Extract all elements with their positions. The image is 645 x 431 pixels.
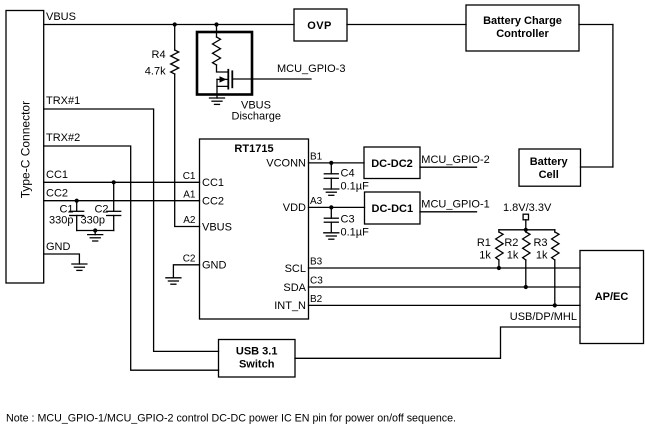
svg-text:CC2: CC2 [202, 196, 224, 208]
svg-text:VBUS: VBUS [241, 99, 271, 111]
wire CC1 [44, 181, 200, 183]
wire RT1715 GND pin [173, 265, 199, 278]
svg-text:Type-C Connector: Type-C Connector [18, 101, 32, 198]
svg-text:1k: 1k [479, 249, 491, 261]
svg-text:SCL: SCL [285, 263, 306, 275]
svg-text:CC1: CC1 [46, 169, 68, 181]
resistor discharge [213, 37, 221, 65]
capacitor C3 bottom stub [330, 222, 332, 233]
svg-text:MCU_GPIO-1: MCU_GPIO-1 [421, 198, 489, 210]
capacitor C3 plates [324, 218, 338, 222]
svg-text:B3: B3 [310, 257, 323, 268]
svg-text:Battery: Battery [530, 156, 569, 168]
svg-text:A2: A2 [183, 215, 196, 226]
svg-text:R3: R3 [533, 237, 547, 249]
svg-text:C1: C1 [183, 171, 196, 182]
wire BCC right to corner [579, 24, 613, 26]
svg-text:Cell: Cell [539, 169, 559, 181]
svg-text:Note : MCU_GPIO-1/MCU_GPIO-2 c: Note : MCU_GPIO-1/MCU_GPIO-2 control DC-… [6, 413, 456, 425]
wire supply rail [499, 229, 555, 231]
svg-text:CC2: CC2 [46, 188, 68, 200]
resistor R4 [171, 50, 179, 74]
svg-text:USB 3.1: USB 3.1 [236, 345, 278, 357]
wire INT_N [309, 304, 581, 306]
ground C3 [324, 233, 339, 239]
wire source [217, 86, 228, 98]
wire drain [217, 65, 229, 72]
capacitor C4 stub [330, 163, 332, 174]
svg-text:A3: A3 [310, 196, 323, 207]
ground caps [88, 231, 103, 242]
svg-text:0.1µF: 0.1µF [341, 181, 370, 193]
svg-text:C3: C3 [310, 276, 323, 287]
svg-text:USB/DP/MHL: USB/DP/MHL [510, 311, 577, 323]
wire connector GND [44, 254, 80, 264]
capacitor C2 stub bottom [113, 216, 115, 231]
svg-text:B1: B1 [310, 152, 323, 163]
svg-text:4.7k: 4.7k [145, 65, 166, 77]
wire R4 top stub [174, 25, 176, 51]
wire R3 bottom [554, 260, 556, 305]
wire MCU_GPIO-2 [420, 166, 477, 168]
wire Battery Cell right [581, 166, 613, 168]
wire supply stem [525, 220, 527, 230]
box OVP [294, 9, 347, 41]
op-amp U1 RT1715 box [200, 139, 309, 319]
svg-text:R1: R1 [477, 237, 491, 249]
resistor R1 [496, 232, 503, 260]
wire OVP to Battery Charge Controller [347, 24, 466, 26]
resistor R2 [523, 232, 530, 260]
wire SDA [309, 286, 581, 288]
wire R4 bottom to VBUS pin [175, 74, 200, 227]
wire cap join [77, 230, 114, 232]
transistor Q1 body arrow [217, 76, 228, 82]
ground below discharge box [210, 98, 225, 104]
svg-text:1k: 1k [536, 249, 548, 261]
svg-text:VDD: VDD [283, 202, 306, 214]
svg-text:GND: GND [202, 260, 227, 272]
ground RT1715 [166, 278, 181, 284]
box DC-DC2 [364, 147, 420, 179]
svg-text:VBUS: VBUS [202, 221, 232, 233]
wire vertical BCC to Battery Cell [612, 25, 614, 168]
box DC-DC1 [365, 192, 421, 224]
svg-text:TRX#1: TRX#1 [46, 95, 80, 107]
wire discharge branch top [216, 25, 218, 38]
svg-text:Controller: Controller [496, 28, 549, 40]
wire MCU_GPIO-1 [420, 211, 477, 213]
svg-text:330p: 330p [49, 215, 73, 227]
svg-text:DC-DC1: DC-DC1 [372, 203, 414, 215]
capacitor C1 stub bottom [76, 216, 78, 231]
svg-text:MCU_GPIO-3: MCU_GPIO-3 [277, 63, 345, 75]
capacitor C3 stub [330, 207, 332, 218]
wire R2 bottom [525, 260, 527, 287]
capacitor C4 plates [324, 174, 338, 179]
svg-text:330p: 330p [81, 215, 105, 227]
wire USB/DP/MHL [295, 327, 580, 358]
svg-text:C4: C4 [341, 168, 355, 180]
svg-text:INT_N: INT_N [274, 300, 306, 312]
wire TRX#2 [44, 146, 219, 370]
capacitor C2 plates [107, 211, 121, 215]
box Battery Charge Controller [466, 5, 579, 51]
svg-text:1k: 1k [507, 249, 519, 261]
svg-text:TRX#2: TRX#2 [46, 132, 80, 144]
wire R1 bottom [498, 260, 500, 268]
wire R2 top stub [525, 230, 527, 232]
node 1.8V/3.3V supply square [523, 214, 528, 220]
svg-text:SDA: SDA [283, 282, 306, 294]
svg-text:R4: R4 [152, 49, 166, 61]
svg-text:A1: A1 [183, 189, 196, 200]
svg-text:VCONN: VCONN [266, 158, 306, 170]
svg-text:MCU_GPIO-2: MCU_GPIO-2 [421, 154, 489, 166]
wire R1 top stub [498, 230, 500, 232]
svg-text:OVP: OVP [307, 20, 331, 32]
svg-text:R2: R2 [504, 237, 518, 249]
svg-text:RT1715: RT1715 [234, 143, 273, 155]
svg-text:GND: GND [46, 241, 71, 253]
svg-text:C2: C2 [183, 254, 196, 265]
svg-text:DC-DC2: DC-DC2 [371, 158, 413, 170]
svg-text:0.1µF: 0.1µF [341, 226, 370, 238]
wire VCONN to DC-DC2 [309, 162, 365, 164]
wire SCL [309, 267, 581, 269]
wire MCU_GPIO-3 gate [232, 78, 311, 80]
capacitor C4 bottom stub [330, 178, 332, 189]
svg-text:C3: C3 [341, 213, 355, 225]
wire R3 top stub [554, 230, 556, 232]
box AP/EC [580, 251, 644, 344]
wire CC2 [44, 200, 200, 202]
wire TRX#1 [44, 109, 219, 351]
wire source-body vertical [216, 79, 218, 86]
box Battery Cell [519, 149, 581, 186]
svg-text:Battery Charge: Battery Charge [483, 15, 562, 27]
capacitor C1 stub top [76, 201, 78, 212]
svg-text:CC1: CC1 [202, 177, 224, 189]
wire VBUS horizontal [44, 24, 294, 26]
svg-text:VBUS: VBUS [46, 11, 76, 23]
ground connector GND [72, 264, 87, 270]
VBUS discharge block box [197, 32, 252, 95]
resistor R3 [552, 232, 559, 260]
svg-text:Switch: Switch [239, 358, 275, 370]
svg-text:Discharge: Discharge [232, 111, 282, 123]
box USB 3.1 Switch [219, 340, 296, 378]
ground C4 [324, 189, 339, 195]
svg-text:AP/EC: AP/EC [595, 291, 629, 303]
node junction dots [75, 22, 557, 307]
capacitor C2 stub top [113, 182, 115, 211]
capacitor C1 plates [70, 211, 84, 215]
transistor Q1 MOSFET channel bars [228, 70, 232, 89]
svg-text:1.8V/3.3V: 1.8V/3.3V [503, 202, 552, 214]
Type-C connector J1 box [6, 11, 44, 284]
wire VDD to DC-DC1 [309, 206, 365, 208]
svg-text:B2: B2 [310, 294, 323, 305]
